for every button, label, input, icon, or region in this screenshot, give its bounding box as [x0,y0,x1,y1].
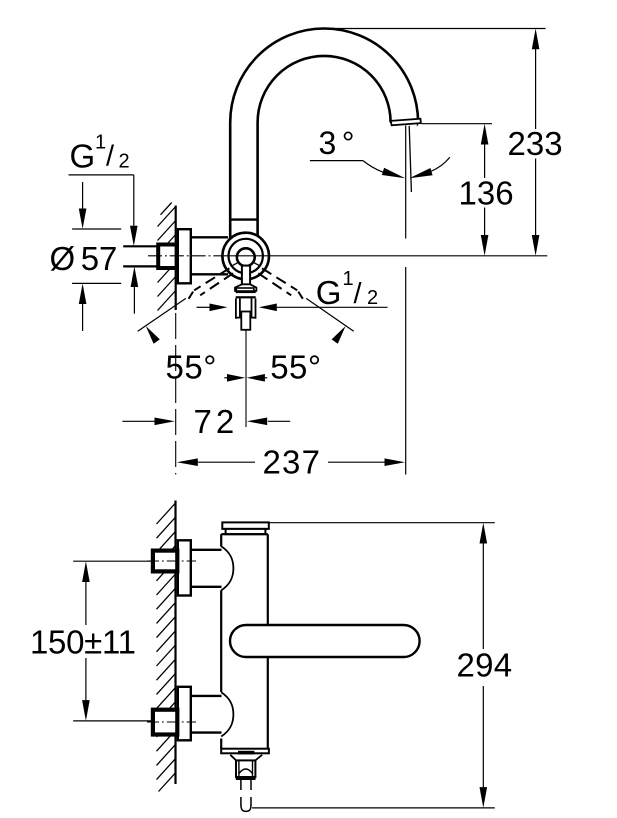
3 deg arrowhead right [409,168,432,178]
dia 57 arrow down [79,182,87,229]
body base plate [221,749,269,754]
wall line (bottom view) [174,501,176,785]
lower union flange [178,687,191,741]
supply pipe stub G1/2 [123,246,157,266]
aerator rings (dark bands) [236,291,256,293]
svg-text:1: 1 [95,132,106,154]
55 arc arrowhead center left [227,374,245,382]
upper union ball bulge [221,546,233,590]
spout joint line [230,218,257,220]
55 arc arrowhead center right [247,374,265,382]
outlet center line down [245,331,247,428]
svg-text:136: 136 [459,175,514,212]
svg-text:/: / [354,278,363,310]
water stream right edge (3 deg) [409,126,411,192]
handle dashed left end cap [189,292,194,299]
dim 294 extension bottom [252,807,495,809]
link pipe flange to valve [191,237,228,274]
svg-text:150±11: 150±11 [30,624,136,661]
3 deg arrowhead left [382,168,405,179]
spout outer edge [230,28,420,241]
dim 150 extension top [73,560,152,562]
dia 57 extension top [72,228,121,230]
svg-text:294: 294 [457,647,513,684]
angle 55 extension line left [138,298,186,331]
upper union flange [178,540,191,595]
drip tube rounded bottom [241,805,251,812]
55 arc arrowhead left outer [146,326,160,344]
dim 294 line + arrows [480,523,488,808]
handle bell collar [235,284,256,291]
wall hatching (top view) [158,203,176,311]
body left edge [220,534,222,749]
spokes in ring [232,262,259,265]
lever handle [230,625,420,657]
aerator housing [236,760,255,777]
svg-text:Ø: Ø [50,240,76,277]
dim 72 line + arrows [122,418,290,426]
water stream left edge / extension line [405,126,407,475]
svg-text:55°: 55° [270,349,321,386]
dim 237 line + arrows [177,458,405,466]
dia 57 extension bottom [72,282,121,284]
handle rotated 55 dashed left upper [194,268,229,290]
lower union ball bulge [221,692,233,736]
outlet collar block [236,288,254,291]
G 1/2 arrow down [130,175,138,246]
wall hatching (bottom view) [157,503,176,792]
flow straightener [241,312,250,330]
valve inner circle [237,248,255,266]
body top shoulder [221,533,268,535]
body right edge [267,534,269,749]
svg-text:3: 3 [319,125,337,161]
svg-text:237: 237 [263,444,322,481]
dim 233 line + arrows [532,29,540,256]
svg-text:G: G [70,137,96,174]
upper union pipe [191,550,222,587]
3 deg arc left [363,161,385,173]
dim 150 line + arrows [82,561,90,721]
svg-text:/: / [106,141,115,173]
upper hex nut [153,551,177,572]
aerator inner lines [239,760,253,776]
svg-text:72: 72 [194,403,239,440]
lower union pipe [191,696,222,733]
outlet funnel [230,755,262,761]
svg-text:1: 1 [343,268,354,290]
angle 55 extension line right [306,298,354,331]
lower hex nut [153,710,177,735]
label G 1/2 top left [70,132,130,175]
handle rotated 55 dashed right lower [258,273,291,295]
aerator dome [239,769,253,774]
dim 294 extension top [270,522,495,524]
horizontal centerline through valve [148,255,226,257]
svg-text:57: 57 [81,240,118,277]
handle rotated 55 dashed left lower [200,273,233,295]
spout inner edge [258,56,391,241]
outlet G 1/2 arrow right + leader [259,304,388,312]
svg-text:G: G [316,274,342,311]
3 deg arc right [431,157,450,171]
svg-text:2: 2 [367,287,378,309]
valve body outer circle [222,233,269,280]
drip tube dashed sides [241,780,251,805]
wall flange escutcheon [178,229,191,283]
label G 1/2 outlet [316,268,378,311]
wall line (top view) [175,206,177,311]
dim 136 line + arrows [481,124,489,256]
valve body mid ring [229,239,263,273]
55 arc center stub right [263,377,268,379]
svg-text:233: 233 [508,125,563,162]
spout end face [391,119,421,126]
svg-text:2: 2 [119,150,130,172]
handle stem [242,266,250,286]
lower centerline dash-dot [147,721,196,723]
3 deg underline [310,160,363,162]
dim 233 top extension [324,28,545,30]
outlet opening dark [238,751,254,755]
55 arc center stub left [224,377,229,379]
G 1/2 underline [69,174,134,176]
handle dashed right end cap [298,292,303,299]
outlet tube [236,298,256,318]
dim 136 top extension [421,123,492,125]
wall line extension down to dims [175,313,177,475]
upper centerline dash-dot [147,560,196,562]
hex nut (top view) [158,245,176,269]
55 arc arrowhead right outer [332,326,346,344]
dim 150 extension bottom [73,720,152,722]
handle rotated 55 dashed right upper [262,268,297,290]
dia 57 arrow up [79,284,87,332]
svg-text:°: ° [342,125,355,161]
body cap ring [226,529,266,534]
G 1/2 arrow up [131,267,139,314]
aerator end dark band [236,777,256,780]
svg-text:55°: 55° [166,349,217,386]
outlet G 1/2 arrow left [197,304,228,312]
body cap top [222,522,268,529]
